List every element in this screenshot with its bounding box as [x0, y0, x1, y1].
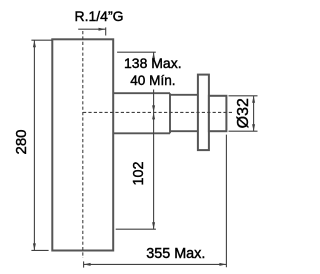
svg-text:138 Max.: 138 Max.: [124, 55, 182, 71]
svg-text:R.1/4”G: R.1/4”G: [74, 8, 123, 24]
svg-text:40 Mín.: 40 Mín.: [130, 73, 175, 88]
svg-text:102: 102: [131, 161, 147, 185]
svg-text:Ø32: Ø32: [235, 98, 252, 128]
svg-text:280: 280: [13, 129, 30, 154]
svg-text:355 Max.: 355 Max.: [146, 246, 205, 262]
